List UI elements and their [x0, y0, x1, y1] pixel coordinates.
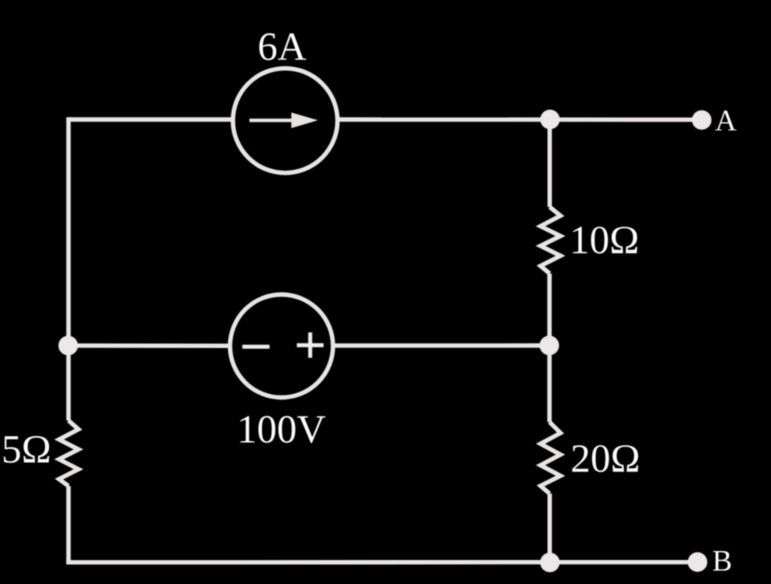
wire middle-right node down to 20ohm	[547, 346, 551, 423]
current source I1 circle 6A	[233, 68, 338, 173]
node dot: terminal B	[688, 552, 708, 572]
wire right branch upper: top node down to 10ohm resistor	[548, 120, 552, 208]
voltage source V1 circle 100V	[230, 295, 333, 398]
voltage source plus sign	[297, 332, 324, 357]
wire left rail mid: middle-left node down to 5ohm	[66, 346, 70, 421]
label B	[713, 551, 731, 571]
label 6A	[259, 33, 306, 60]
wire 10ohm to middle-right node	[547, 274, 551, 346]
resistor 5ohm zigzag	[59, 421, 79, 487]
node dot: top junction	[540, 110, 560, 130]
current source arrow	[249, 113, 318, 129]
node dot: terminal A	[692, 110, 712, 130]
voltage source minus sign	[242, 345, 269, 349]
wire left rail upper: top-left corner down to middle-left node	[66, 117, 70, 345]
wire 20ohm to bottom node	[548, 494, 552, 563]
wire left rail lower: 5ohm down to bottom-left corner	[66, 486, 70, 562]
node dot: bottom junction	[540, 553, 560, 573]
wire middle-right: voltage source to middle-right node	[335, 343, 549, 348]
label 5ohm	[4, 436, 49, 463]
node dot: middle-left junction	[58, 336, 78, 356]
wire bottom rail: bottom-left corner to bottom node to terminal B	[66, 560, 697, 564]
label 20ohm	[572, 445, 638, 472]
resistor 10ohm zigzag	[541, 207, 561, 274]
label 10ohm	[573, 227, 637, 254]
resistor 20ohm zigzag	[541, 422, 561, 494]
node dot: middle-right junction	[540, 336, 560, 356]
wire top-right: current source to top node to terminal A	[340, 117, 702, 122]
label A	[715, 111, 736, 131]
label 100V	[240, 416, 325, 443]
wire top-left: top rail from left corner to current source	[69, 117, 232, 121]
wire middle-left: node to voltage source	[69, 343, 229, 348]
